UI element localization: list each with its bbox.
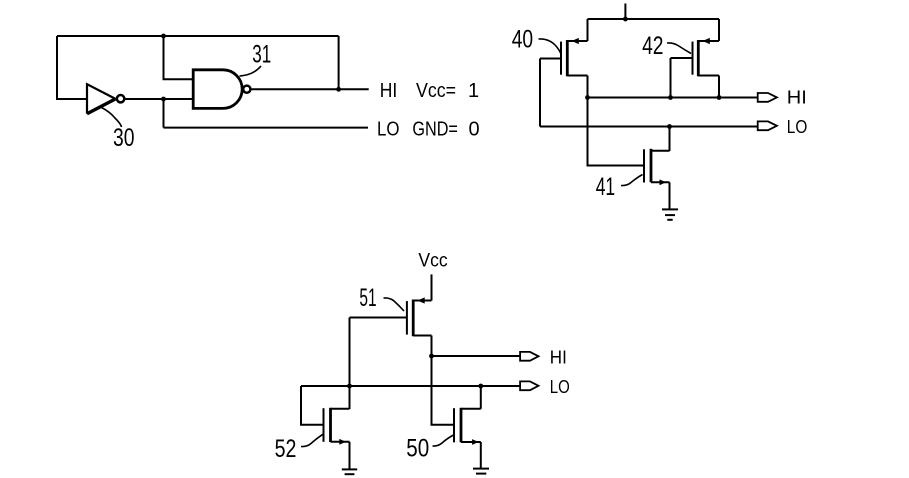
ground (under Q41) [662, 209, 678, 219]
svg-text:30: 30 [113, 124, 135, 152]
wire LO line (bottom) [301, 385, 520, 387]
label 51 leader [384, 298, 405, 311]
label 40 leader [539, 39, 561, 53]
wire Q42 source to HI [718, 76, 720, 98]
wire Q52 gate from LO left [301, 386, 324, 425]
svg-text:52: 52 [275, 435, 297, 463]
transistor Q50 [454, 408, 481, 445]
wire Q40 gate vertical to LO [539, 59, 541, 127]
wire Q51 source to HI [431, 336, 433, 357]
svg-text:42: 42 [642, 32, 663, 60]
svg-text:50: 50 [406, 435, 429, 463]
transistor Q40 [540, 38, 588, 76]
wire Q50 source to ground [480, 442, 482, 469]
wire top rail [588, 18, 720, 20]
wire Q41 gate from HI [588, 98, 645, 166]
svg-text:40: 40 [512, 26, 533, 54]
port arrow HI (top-right) [758, 93, 777, 102]
wire LO line (top-right) [540, 126, 758, 128]
svg-text:0: 0 [468, 118, 479, 140]
wire HI line (bottom) [432, 355, 521, 357]
wire LO line [164, 127, 369, 129]
wire Q51 gate vertical to LO [349, 318, 351, 387]
svg-text:LO: LO [550, 377, 570, 397]
inverter U30 bubble [117, 95, 124, 102]
svg-text:Vcc: Vcc [418, 249, 448, 271]
svg-text:31: 31 [252, 40, 271, 68]
node junction inverter output [161, 97, 166, 102]
node junction Q40 source on HI [585, 95, 590, 100]
svg-text:1: 1 [468, 80, 479, 102]
node junction supply [623, 17, 628, 22]
label 31 leader [240, 66, 262, 76]
wire Q40 drain vertical [587, 19, 589, 41]
svg-text:HI: HI [550, 347, 567, 367]
node junction top wire [161, 34, 166, 39]
svg-text:HI: HI [380, 80, 398, 102]
wire supply stub [624, 4, 626, 20]
NAND gate U31 bubble [243, 86, 250, 93]
wire HI line from NAND output [252, 88, 369, 90]
wire Q52 drain to LO [349, 386, 351, 409]
port arrow LO (bottom) [520, 381, 538, 390]
node junction Q51 gate on LO [347, 384, 352, 389]
wire Q41 drain to LO [669, 127, 671, 152]
label 42 leader [667, 43, 691, 54]
transistor Q42 [671, 38, 720, 76]
label 30 leader [102, 108, 122, 128]
node junction Q42 gate on HI [668, 95, 673, 100]
transistor Q52 [324, 408, 350, 445]
wire Q42 gate vertical to HI [670, 58, 672, 98]
NAND gate U31 body [193, 70, 242, 109]
wire Q52 source to ground [349, 442, 351, 469]
node junction Q50 drain on LO [478, 384, 483, 389]
wire Q41 source to ground [669, 182, 671, 209]
svg-text:GND=: GND= [412, 118, 458, 140]
wire down from inverter output to LO [163, 99, 165, 128]
node junction Q42 source on HI [717, 95, 722, 100]
svg-text:41: 41 [596, 173, 615, 201]
wire Q42 drain vertical [718, 19, 720, 41]
ground (under Q50) [473, 469, 489, 474]
transistor Q51 [350, 297, 432, 336]
inverter U30 triangle [87, 84, 116, 114]
label 52 leader [301, 434, 323, 446]
label 50 leader [433, 435, 454, 446]
wire left vertical + inverter input [57, 36, 87, 99]
wire Vcc stub [431, 274, 433, 300]
svg-text:51: 51 [359, 284, 376, 312]
node junction HI (bottom) [429, 354, 434, 359]
wire tap to NAND upper input [164, 36, 194, 79]
port arrow HI (bottom) [520, 352, 538, 361]
label 41 leader [621, 175, 643, 186]
svg-text:LO: LO [787, 117, 808, 137]
wire HI line (top-right) [588, 97, 758, 99]
wire inverter output to NAND lower input [125, 98, 194, 100]
transistor Q41 [644, 149, 670, 185]
svg-text:Vcc=: Vcc= [416, 80, 456, 102]
port arrow LO (top-right) [758, 121, 777, 130]
wire Q40 source to HI [587, 76, 589, 98]
wire Q50 gate from HI node [432, 356, 455, 425]
svg-text:LO: LO [377, 118, 400, 140]
wire feedback right vertical [338, 36, 340, 89]
node junction Q41 drain on LO [667, 124, 672, 129]
svg-text:HI: HI [787, 88, 807, 108]
wire feedback top horizontal [57, 35, 339, 37]
ground (under Q52) [342, 469, 357, 474]
wire Q50 drain to LO [480, 386, 482, 409]
node junction feedback on HI line [336, 87, 341, 92]
